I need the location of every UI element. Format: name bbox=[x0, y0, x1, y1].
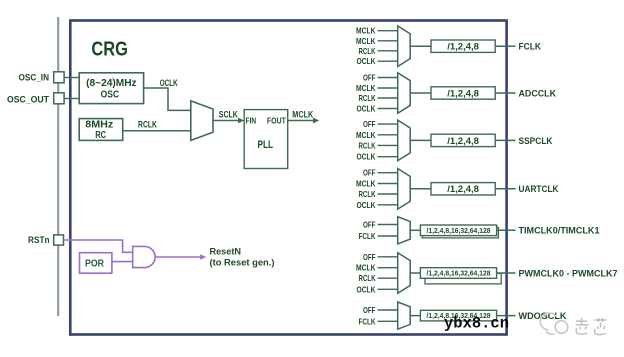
svg-text:8MHz: 8MHz bbox=[85, 119, 113, 130]
wire MCLK input to UARTCLK mux bbox=[378, 183, 398, 185]
wire OCLK input to SSPCLK mux bbox=[378, 156, 398, 158]
svg-text:OCLK: OCLK bbox=[357, 152, 377, 162]
svg-text:ybx8.cn: ybx8.cn bbox=[444, 314, 509, 332]
svg-text:MCLK: MCLK bbox=[292, 110, 313, 120]
wire OCLK from OSC to mux bbox=[144, 88, 191, 110]
svg-text:PLL: PLL bbox=[258, 139, 274, 151]
svg-text:FCLK: FCLK bbox=[359, 231, 377, 241]
wire FCLK divider to output bbox=[495, 45, 515, 47]
mux PWMCLK bbox=[398, 253, 411, 294]
mux SSPCLK bbox=[398, 120, 411, 161]
svg-text:/1,2,4,8: /1,2,4,8 bbox=[447, 42, 479, 53]
wire OCLK input to UARTCLK mux bbox=[378, 204, 398, 206]
svg-text:MCLK: MCLK bbox=[356, 83, 376, 93]
wire MCLK input to FCLK mux bbox=[378, 30, 398, 32]
wire OSC_OUT to OSC bbox=[64, 98, 79, 100]
wire TIMCLK divider to output bbox=[497, 229, 516, 231]
wire ADCCLK divider to output bbox=[495, 92, 515, 94]
wire OFF input to TIMCLK mux bbox=[378, 224, 398, 226]
wire OFF input to SSPCLK mux bbox=[378, 123, 398, 125]
svg-text:/1,2,4,8,16,32,64,128: /1,2,4,8,16,32,64,128 bbox=[427, 228, 491, 235]
svg-text:ADCCLK: ADCCLK bbox=[519, 88, 557, 99]
wire PWMCLK divider to output bbox=[497, 272, 516, 274]
wire FCLK input to TIMCLK mux bbox=[378, 235, 398, 237]
svg-text:(to Reset gen.): (to Reset gen.) bbox=[210, 258, 275, 268]
wire MCLK input to ADCCLK mux bbox=[378, 87, 398, 89]
divider /1,2,4,8 for SSPCLK bbox=[431, 134, 495, 146]
svg-text:OCLK: OCLK bbox=[160, 78, 178, 88]
wire OCLK input to ADCCLK mux bbox=[378, 108, 398, 110]
divider /1,2,4,8 for ADCCLK bbox=[431, 87, 495, 99]
wire PWMCLK mux to divider bbox=[410, 272, 420, 274]
svg-text:/1,2,4,8: /1,2,4,8 bbox=[447, 88, 479, 99]
wire RCLK input to SSPCLK mux bbox=[378, 144, 398, 146]
svg-text:RCLK: RCLK bbox=[359, 93, 377, 103]
wire ADCCLK mux to divider bbox=[410, 92, 431, 94]
wire SSPCLK divider to output bbox=[495, 139, 515, 141]
mux WDOGCLK bbox=[398, 302, 411, 329]
svg-text:SSPCLK: SSPCLK bbox=[519, 136, 553, 147]
mux TIMCLK bbox=[398, 217, 411, 244]
wire RSTn to AND gate bbox=[64, 240, 133, 252]
svg-text:OFF: OFF bbox=[363, 73, 376, 83]
svg-text:MCLK: MCLK bbox=[356, 36, 376, 46]
svg-text:RCLK: RCLK bbox=[138, 120, 157, 130]
svg-text:OFF: OFF bbox=[363, 119, 376, 129]
svg-text:OSC_IN: OSC_IN bbox=[19, 73, 50, 83]
wire OFF input to WDOGCLK mux bbox=[378, 309, 398, 311]
and gate reset combine bbox=[133, 246, 155, 267]
wire TIMCLK mux to divider bbox=[410, 229, 420, 231]
wire RCLK from RC to mux bbox=[123, 130, 191, 132]
wire FCLK mux to divider bbox=[410, 45, 431, 47]
divider stack shadow for PWMCLK bbox=[425, 273, 501, 284]
svg-text:TIMCLK0/TIMCLK1: TIMCLK0/TIMCLK1 bbox=[519, 226, 601, 237]
svg-text:MCLK: MCLK bbox=[356, 263, 376, 273]
wire RCLK input to ADCCLK mux bbox=[378, 97, 398, 99]
svg-text:OFF: OFF bbox=[363, 305, 376, 315]
divider stack shadow for TIMCLK bbox=[422, 227, 498, 238]
svg-text:OFF: OFF bbox=[363, 220, 376, 230]
wire OSC_IN to OSC bbox=[64, 77, 79, 79]
pll box U-PLL bbox=[244, 110, 288, 169]
por box POR bbox=[80, 253, 112, 274]
wire MCLK input to PWMCLK mux bbox=[378, 267, 398, 269]
svg-text:MCLK: MCLK bbox=[356, 130, 376, 140]
svg-text:SCLK: SCLK bbox=[219, 109, 238, 119]
svg-text:OCLK: OCLK bbox=[357, 104, 377, 114]
wire OCLK input to FCLK mux bbox=[378, 60, 398, 62]
divider /1,2,4,8,16,32,64,128 for WDOGCLK bbox=[420, 310, 496, 321]
svg-text:RC: RC bbox=[95, 130, 106, 141]
wire RCLK input to PWMCLK mux bbox=[378, 277, 398, 279]
svg-text:UARTCLK: UARTCLK bbox=[519, 184, 559, 195]
wire SCLK mux to PLL bbox=[213, 120, 240, 122]
divider /1,2,4,8 for FCLK bbox=[431, 40, 495, 52]
svg-text:OSC_OUT: OSC_OUT bbox=[7, 95, 49, 105]
wire UARTCLK divider to output bbox=[495, 188, 515, 190]
mux UARTCLK bbox=[398, 169, 411, 210]
divider /1,2,4,8,16,32,64,128 for PWMCLK bbox=[420, 268, 496, 279]
svg-text:PWMCLK0 - PWMCLK7: PWMCLK0 - PWMCLK7 bbox=[519, 268, 618, 279]
oscillator box 8MHz RC bbox=[79, 119, 123, 141]
wire RCLK input to UARTCLK mux bbox=[378, 193, 398, 195]
svg-text:CRG: CRG bbox=[91, 38, 128, 61]
svg-text:RCLK: RCLK bbox=[359, 189, 377, 199]
divider /1,2,4,8 for UARTCLK bbox=[431, 183, 495, 195]
svg-text:FOUT: FOUT bbox=[267, 116, 286, 125]
svg-text:OFF: OFF bbox=[363, 168, 376, 178]
svg-text:/1,2,4,8,16,32,64,128: /1,2,4,8,16,32,64,128 bbox=[427, 271, 491, 278]
svg-text:OCLK: OCLK bbox=[357, 200, 377, 210]
wire left vertical bus bbox=[57, 17, 59, 316]
svg-text:RCLK: RCLK bbox=[359, 46, 377, 56]
svg-text:/1,2,4,8: /1,2,4,8 bbox=[447, 184, 479, 195]
svg-text:OCLK: OCLK bbox=[357, 56, 377, 66]
svg-text:POR: POR bbox=[85, 257, 104, 269]
oscillator box (8~24)MHz OSC bbox=[79, 73, 143, 104]
svg-text:RCLK: RCLK bbox=[359, 140, 377, 150]
wire ResetN output bbox=[155, 256, 201, 258]
svg-text:FIN: FIN bbox=[246, 116, 257, 125]
wire OFF input to PWMCLK mux bbox=[378, 256, 398, 258]
divider /1,2,4,8,16,32,64,128 for TIMCLK bbox=[420, 225, 496, 236]
svg-text:MCLK: MCLK bbox=[356, 26, 376, 36]
wire WDOGCLK mux to divider bbox=[410, 315, 420, 317]
mux main clock select bbox=[191, 101, 213, 140]
svg-text:OFF: OFF bbox=[363, 252, 376, 262]
watermark text zhixin bbox=[576, 318, 607, 335]
wire RCLK input to FCLK mux bbox=[378, 50, 398, 52]
frame CRG block boundary bbox=[70, 21, 506, 335]
watermark logo swirl bbox=[540, 313, 568, 334]
wire POR to AND gate bbox=[112, 261, 133, 263]
wire OCLK input to PWMCLK mux bbox=[378, 288, 398, 290]
mux ADCCLK bbox=[398, 73, 411, 114]
svg-text:ResetN: ResetN bbox=[210, 246, 242, 256]
svg-text:FCLK: FCLK bbox=[519, 42, 542, 53]
svg-text:OSC: OSC bbox=[101, 89, 120, 101]
wire SSPCLK mux to divider bbox=[410, 139, 431, 141]
svg-text:OCLK: OCLK bbox=[357, 284, 377, 294]
wire WDOGCLK divider to output bbox=[497, 315, 516, 317]
svg-text:FCLK: FCLK bbox=[359, 316, 377, 326]
mux FCLK bbox=[398, 26, 411, 67]
wire MCLK input to SSPCLK mux bbox=[378, 134, 398, 136]
svg-text:MCLK: MCLK bbox=[356, 179, 376, 189]
wire UARTCLK mux to divider bbox=[410, 188, 431, 190]
wire MCLK input to FCLK mux bbox=[378, 40, 398, 42]
svg-text:RSTn: RSTn bbox=[28, 235, 50, 245]
svg-text:RCLK: RCLK bbox=[359, 273, 377, 283]
wire MCLK from PLL bbox=[288, 120, 314, 122]
wire OFF input to ADCCLK mux bbox=[378, 77, 398, 79]
svg-text:(8~24)MHz: (8~24)MHz bbox=[86, 77, 137, 89]
wire FCLK input to WDOGCLK mux bbox=[378, 320, 398, 322]
wire OFF input to UARTCLK mux bbox=[378, 172, 398, 174]
svg-text:/1,2,4,8: /1,2,4,8 bbox=[447, 136, 479, 147]
